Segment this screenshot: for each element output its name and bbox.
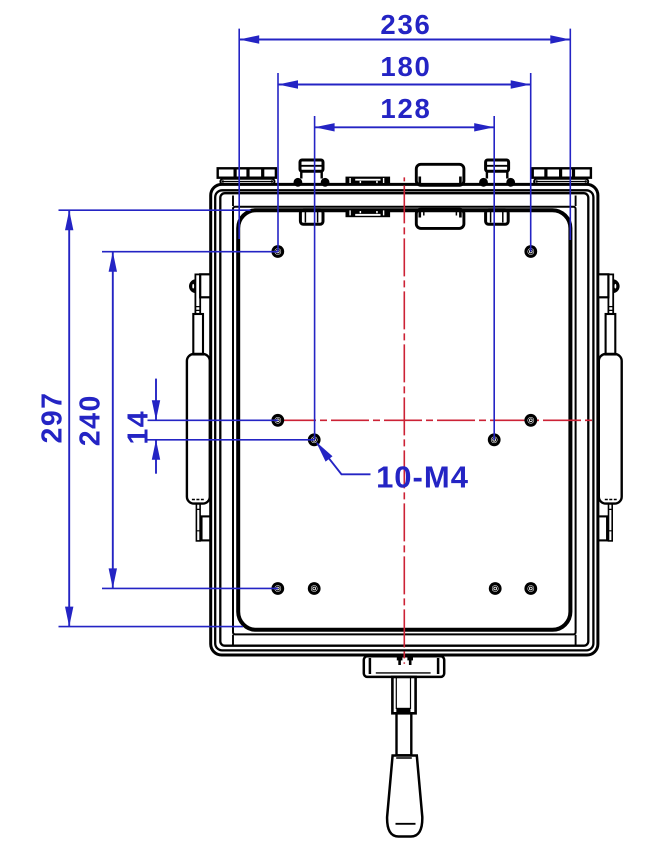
dimension 236 arrows [239, 35, 570, 43]
svg-text:240: 240 [74, 394, 106, 446]
svg-text:180: 180 [380, 51, 431, 82]
left tab slots [235, 169, 263, 176]
hole mid-left [271, 414, 284, 427]
red centerline vertical [403, 177, 405, 663]
hole bottom-1 [271, 582, 284, 595]
second housing line [215, 190, 593, 650]
left clamp stem column [195, 274, 200, 314]
knob stem dark band [396, 708, 410, 713]
hole M4-right [488, 433, 501, 446]
right clamp rod [606, 314, 616, 355]
svg-text:128: 128 [380, 93, 431, 124]
hole bottom-4 [524, 582, 537, 595]
hole bottom-3 [489, 582, 502, 595]
dimension 128 line [315, 126, 495, 128]
left clamp rod [193, 314, 203, 355]
knob grip [387, 756, 422, 837]
dimension 128 arrows [315, 123, 495, 131]
right clamp screw head half-disc [613, 279, 620, 293]
right clamp screw block [598, 274, 608, 297]
dimension 297 arrows [65, 210, 73, 626]
dimension 240 arrows [109, 252, 117, 589]
post A lower tab [300, 210, 323, 224]
bottom bracket end columns [370, 658, 438, 674]
bottom bracket pins [397, 657, 413, 665]
dimension 180 arrows [278, 80, 531, 88]
hole bottom-2 [308, 582, 321, 595]
right tab slots [546, 169, 574, 176]
left clamp pill ticks [192, 499, 204, 501]
svg-text:10-M4: 10-M4 [376, 459, 469, 494]
right tab bar [534, 179, 588, 185]
right clamp pill ticks [605, 499, 617, 501]
moving plate skirt (square corners) [233, 207, 576, 635]
svg-text:236: 236 [380, 9, 431, 40]
hole top-left [271, 245, 284, 258]
dimension 240 extension lines [102, 251, 278, 253]
plate skirt stub top-right [575, 196, 577, 207]
left tab clamp plate [218, 168, 276, 177]
knob shaft [397, 713, 412, 755]
pocket opening rect [220, 193, 588, 646]
knob grip top cap [396, 757, 412, 759]
post A feet [294, 178, 303, 187]
post B lower tab [486, 210, 509, 224]
right clamp pill [599, 354, 622, 504]
small connector bottom part [346, 209, 391, 217]
left clamp pill [187, 354, 210, 504]
svg-text:14: 14 [123, 410, 155, 445]
dimension 180 extension lines [277, 73, 279, 252]
dimension 236 extension lines [238, 29, 240, 239]
small connector top part [346, 177, 391, 185]
left clamp lower stem [196, 504, 200, 541]
dimension 297 extension lines [59, 209, 251, 211]
dimension 128 extension lines [314, 116, 316, 440]
left clamp screw block [200, 274, 210, 297]
dimension 14 line with outside arrows [155, 379, 157, 421]
hole mid-right [524, 414, 537, 427]
plate skirt stub bottom-left [232, 635, 234, 645]
post B feet [479, 178, 488, 187]
post A cap [300, 160, 323, 171]
hole M4-left [308, 433, 321, 446]
leader 10-M4 [317, 443, 371, 474]
dimension 14 extension lines [148, 419, 279, 421]
post B cap [486, 160, 509, 171]
left clamp lower block [202, 516, 211, 540]
right tab clamp plate [533, 168, 591, 177]
knob stem wide [392, 677, 415, 713]
outer housing rounded rect [211, 184, 598, 655]
moving plate thick rounded rect [238, 210, 570, 630]
right clamp stem column [608, 274, 613, 314]
dimension 297 line [68, 210, 70, 626]
hole top-right [524, 245, 537, 258]
plate skirt stub bottom-right [575, 635, 577, 645]
right clamp lower stem [609, 504, 613, 541]
dimension 240 line [112, 252, 114, 589]
left clamp screw head half-disc [189, 279, 196, 293]
bottom bracket inner line [376, 672, 431, 674]
dimension 180 line [278, 84, 531, 86]
big connector top part [416, 164, 464, 185]
dimension 236 line [239, 39, 570, 41]
knob grip bottom line [396, 823, 416, 825]
svg-text:297: 297 [37, 391, 69, 443]
bottom bracket [364, 656, 444, 677]
big connector bottom part [416, 209, 464, 228]
right clamp lower block [598, 516, 607, 540]
post B neck [487, 171, 507, 178]
post A neck [301, 171, 321, 178]
left tab bar [220, 179, 274, 185]
red centerline horizontal [278, 419, 592, 421]
plate skirt stub top-left [232, 196, 234, 207]
